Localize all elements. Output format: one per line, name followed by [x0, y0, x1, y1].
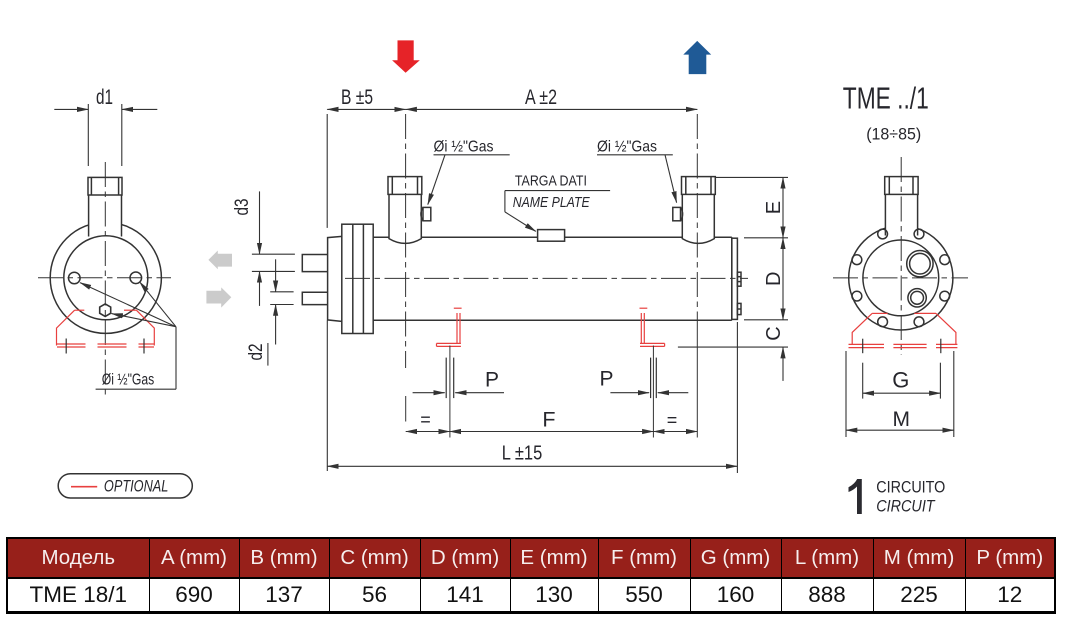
svg-text:CIRCUIT: CIRCUIT	[876, 497, 936, 515]
svg-text:=: =	[420, 410, 431, 430]
svg-text:d1: d1	[96, 86, 113, 109]
svg-text:F: F	[542, 408, 555, 432]
svg-text:B ±5: B ±5	[341, 86, 373, 109]
svg-text:NAME PLATE: NAME PLATE	[513, 194, 591, 211]
svg-text:E: E	[763, 201, 785, 214]
svg-text:P: P	[599, 368, 613, 391]
svg-text:C: C	[763, 326, 785, 340]
svg-text:Øi ½"Gas: Øi ½"Gas	[597, 139, 657, 156]
svg-text:Øi ½"Gas: Øi ½"Gas	[434, 139, 494, 156]
svg-text:G: G	[892, 368, 909, 393]
svg-text:OPTIONAL: OPTIONAL	[104, 477, 168, 495]
svg-text:d3: d3	[232, 199, 253, 216]
svg-text:A ±2: A ±2	[525, 86, 557, 109]
svg-text:Øi ½"Gas: Øi ½"Gas	[102, 372, 155, 389]
svg-text:CIRCUITO: CIRCUITO	[876, 478, 945, 496]
svg-text:P: P	[485, 369, 499, 392]
svg-text:TME ../1: TME ../1	[843, 81, 929, 116]
svg-text:D: D	[763, 272, 785, 286]
svg-text:L ±15: L ±15	[502, 442, 543, 465]
svg-text:M: M	[892, 408, 910, 431]
svg-text:d2: d2	[246, 344, 267, 361]
svg-text:=: =	[667, 410, 678, 430]
svg-text:TARGA DATI: TARGA DATI	[515, 172, 587, 189]
svg-text:(18÷85): (18÷85)	[866, 125, 921, 144]
